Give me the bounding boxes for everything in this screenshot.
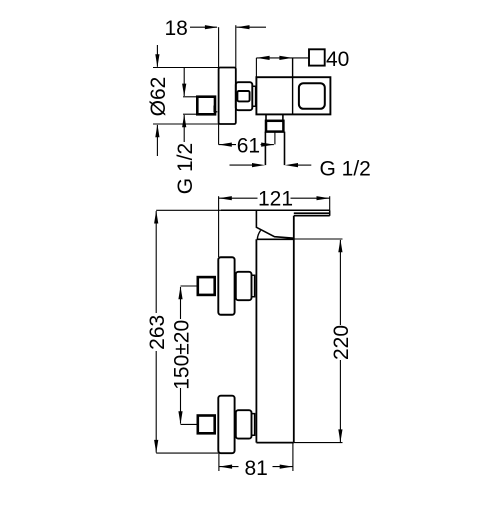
svg-text:220: 220 bbox=[330, 325, 353, 360]
svg-text:81: 81 bbox=[245, 457, 268, 480]
svg-text:G 1/2: G 1/2 bbox=[174, 143, 197, 194]
svg-text:263: 263 bbox=[146, 315, 169, 350]
svg-text:G 1/2: G 1/2 bbox=[320, 158, 371, 181]
svg-text:150±20: 150±20 bbox=[170, 320, 193, 390]
svg-text:61: 61 bbox=[237, 134, 260, 157]
svg-text:18: 18 bbox=[165, 17, 188, 40]
svg-text:Ø62: Ø62 bbox=[147, 77, 170, 117]
svg-text:40: 40 bbox=[326, 48, 349, 71]
svg-text:121: 121 bbox=[258, 188, 293, 211]
